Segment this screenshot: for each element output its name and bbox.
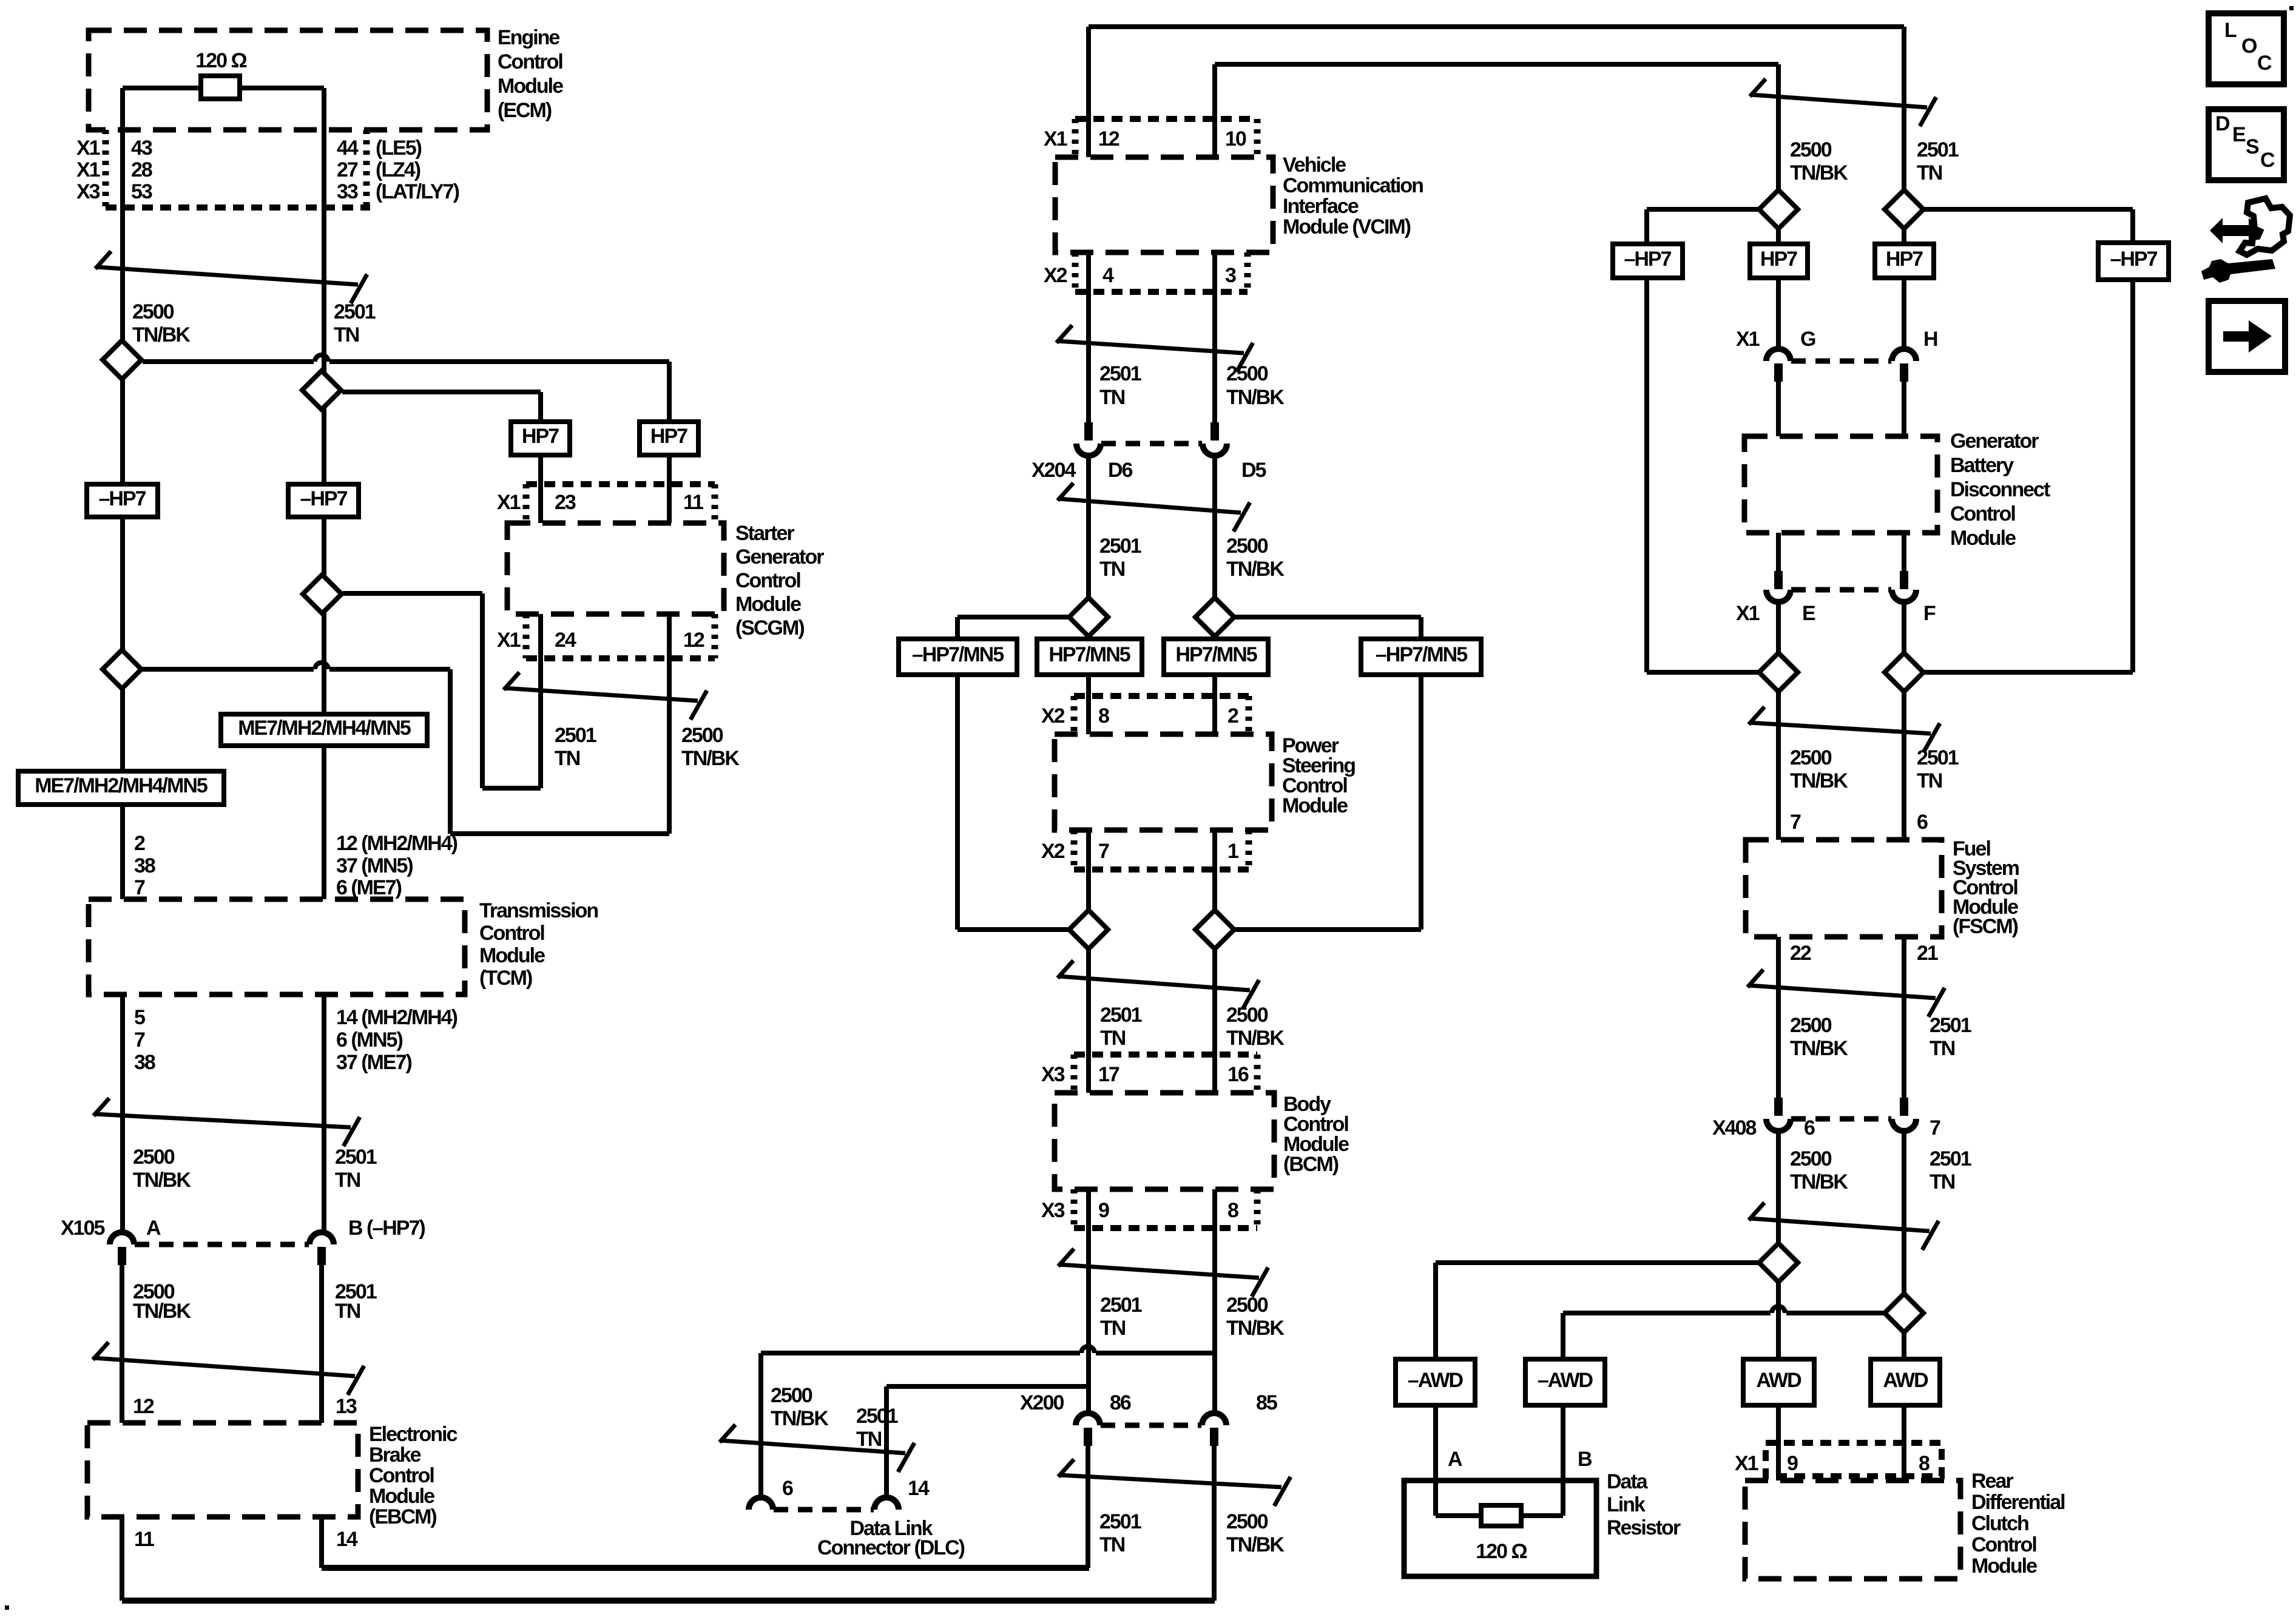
SCGM lower pin box bbox=[526, 614, 715, 658]
svg-text:(LAT/LY7): (LAT/LY7) bbox=[376, 180, 459, 203]
wire S8 to right loop bbox=[1235, 927, 1421, 932]
label X200 pin 85 bbox=[1256, 1391, 1277, 1414]
svg-text:X1: X1 bbox=[76, 137, 100, 160]
FSCM pin 22 bbox=[1790, 942, 1811, 965]
inline connector X408 7 bbox=[1892, 1098, 1916, 1131]
svg-text:TN: TN bbox=[555, 747, 580, 770]
RDCCM X1 designator bbox=[1735, 1452, 1758, 1475]
svg-text:(TCM): (TCM) bbox=[479, 967, 532, 990]
splice S12 on 2501 bbox=[1885, 653, 1923, 692]
option box AWD right bbox=[1871, 1359, 1940, 1405]
svg-text:Clutch: Clutch bbox=[1971, 1512, 2028, 1535]
svg-text:85: 85 bbox=[1256, 1391, 1277, 1414]
svg-text:28: 28 bbox=[131, 158, 152, 181]
wire HP7 to SCGM pin 23 bbox=[538, 455, 543, 788]
svg-text:TN/BK: TN/BK bbox=[133, 1169, 191, 1192]
svg-text:TN: TN bbox=[1100, 1027, 1126, 1050]
wire HP7 to SCGM pin 11 bbox=[667, 455, 672, 834]
option box -HP7/MN5 right bbox=[1361, 639, 1481, 675]
label Starter Generator Control Module (SCGM) bbox=[735, 522, 824, 640]
svg-text:ME7/MH2/MH4/MN5: ME7/MH2/MH4/MN5 bbox=[35, 774, 208, 797]
svg-text:TN/BK: TN/BK bbox=[1790, 769, 1848, 792]
SCGM pin 11 bbox=[683, 491, 703, 514]
svg-text:(FSCM): (FSCM) bbox=[1953, 915, 2018, 938]
label Data Link Resistor bbox=[1607, 1470, 1681, 1539]
ECM pins 44 27 33 bbox=[337, 137, 359, 203]
svg-text:AWD: AWD bbox=[1756, 1369, 1801, 1392]
svg-text:X1: X1 bbox=[497, 629, 521, 652]
module box ECM bbox=[89, 30, 487, 130]
resistor 120 ohm (ECM internal termination) bbox=[201, 76, 240, 99]
svg-text:2501: 2501 bbox=[856, 1405, 898, 1428]
wire S6 stub to box bbox=[1212, 636, 1217, 639]
wire 2501 TN right ECM drop bbox=[322, 88, 326, 1232]
svg-text:27: 27 bbox=[337, 158, 358, 181]
svg-text:–HP7/MN5: –HP7/MN5 bbox=[1376, 643, 1467, 666]
wire AWD to RDCCM 9 bbox=[1776, 1405, 1781, 1480]
bus wire 2501 TN bottom bbox=[322, 1565, 1089, 1571]
SCGM pin 23 bbox=[555, 491, 576, 514]
wire X408 6 to S13 bbox=[1776, 1131, 1781, 1243]
FSCM pin 6 bbox=[1917, 811, 1928, 834]
svg-text:2500: 2500 bbox=[132, 300, 174, 323]
svg-text:37 (ME7): 37 (ME7) bbox=[336, 1051, 411, 1074]
svg-text:TN: TN bbox=[1099, 1533, 1125, 1556]
wire S10 to HP7 box bbox=[1902, 229, 1906, 244]
module box VCIM bbox=[1055, 157, 1273, 252]
svg-text:Module: Module bbox=[498, 75, 563, 98]
wire S5 to -HP7/MN5 branch bbox=[957, 617, 1068, 639]
label X408 pin 7 bbox=[1930, 1116, 1940, 1139]
splice S7 on 2501 bbox=[1069, 910, 1108, 949]
svg-text:X2: X2 bbox=[1041, 840, 1065, 863]
svg-text:HP7: HP7 bbox=[522, 425, 559, 448]
fuse box HP7 (SCGM 11) bbox=[640, 422, 698, 455]
wire S6 to -HP7/MN5 branch bbox=[1235, 617, 1421, 639]
BCM X3 designator lower bbox=[1041, 1199, 1065, 1222]
label wire 2500 TN/BK bbox=[132, 300, 191, 346]
label wire 2501 TN SCGM bbox=[555, 724, 596, 770]
label wire 2500 TN/BK above X105 bbox=[133, 1146, 191, 1192]
BCM pin 16 bbox=[1227, 1063, 1249, 1086]
svg-text:TN: TN bbox=[335, 1300, 360, 1323]
wire X204 D6 down bbox=[1086, 456, 1091, 598]
X408 connector dashed line bbox=[1791, 1116, 1891, 1122]
svg-text:7: 7 bbox=[134, 876, 145, 899]
PSCM X2 lower pin box bbox=[1074, 830, 1249, 869]
wire HP7/MN5 to PSCM 8 bbox=[1086, 675, 1091, 734]
label connector X408 bbox=[1712, 1116, 1756, 1139]
BCM pin 9 bbox=[1098, 1199, 1109, 1222]
twisted pair symbol T3 bbox=[93, 1342, 364, 1395]
DLC connector dashed line bbox=[774, 1507, 874, 1513]
wire VCIM 4 to X204 D6 bbox=[1086, 252, 1091, 422]
module box Generator Battery Disconnect Control Module bbox=[1744, 436, 1937, 533]
option box ME7/MH2/MH4/MN5 upper bbox=[221, 714, 427, 746]
icon box arrow bbox=[2209, 301, 2285, 372]
svg-text:–HP7: –HP7 bbox=[98, 487, 146, 510]
inline connector X1 F bbox=[1892, 571, 1916, 602]
wire GBDCM to X1 E bbox=[1776, 533, 1781, 571]
twisted pair symbol T1 bbox=[95, 251, 367, 303]
label wire 2500 TN/BK above BCM bbox=[1226, 1004, 1285, 1050]
mark top right dot bbox=[2289, 6, 2294, 10]
svg-text:X2: X2 bbox=[1041, 704, 1065, 727]
wire S12 to FSCM 6 bbox=[1902, 692, 1906, 840]
bus wire 2500 TN/BK bottom bbox=[122, 1598, 1215, 1604]
label wire 2500 TN/BK below X408 bbox=[1790, 1147, 1848, 1193]
splice S8 on 2500 bbox=[1195, 910, 1234, 949]
svg-text:8: 8 bbox=[1098, 704, 1109, 727]
module box TCM bbox=[89, 899, 465, 994]
wire DLC 14 riser bbox=[886, 1386, 1089, 1497]
X204 connector dashed line bbox=[1101, 441, 1202, 447]
wire X408 7 to S14 bbox=[1902, 1131, 1906, 1294]
wire PSCM 1 to S8 bbox=[1212, 830, 1217, 910]
svg-text:11: 11 bbox=[683, 491, 703, 514]
module box EBCM bbox=[87, 1423, 358, 1517]
label wire 2501 TN top right bbox=[1917, 138, 1959, 184]
svg-text:G: G bbox=[1800, 328, 1815, 351]
svg-text:2500: 2500 bbox=[1226, 1294, 1268, 1317]
svg-text:12 (MH2/MH4): 12 (MH2/MH4) bbox=[336, 832, 458, 855]
svg-text:TN: TN bbox=[856, 1428, 882, 1451]
svg-text:TN: TN bbox=[1930, 1037, 1955, 1060]
wire DLR B internal bbox=[1521, 1480, 1563, 1516]
wire E to S11 bbox=[1776, 602, 1781, 653]
EBCM pin 12 bbox=[133, 1395, 154, 1418]
svg-text:12: 12 bbox=[1098, 127, 1119, 150]
label pin G bbox=[1800, 328, 1815, 351]
svg-text:14 (MH2/MH4): 14 (MH2/MH4) bbox=[336, 1006, 458, 1029]
option box HP7/MN5 right bbox=[1164, 639, 1268, 675]
svg-text:2501: 2501 bbox=[1099, 535, 1141, 558]
svg-text:4: 4 bbox=[1102, 264, 1114, 287]
label Electronic Brake Control Module (EBCM) bbox=[369, 1423, 457, 1528]
module box Fuel System Control Module bbox=[1746, 840, 1942, 937]
wire VCIM 3 to X204 D5 bbox=[1212, 252, 1217, 422]
SCGM X1 upper bbox=[497, 491, 521, 514]
label 120 ohm bbox=[195, 49, 246, 72]
svg-text:E: E bbox=[2232, 123, 2246, 146]
FSCM pin 7 bbox=[1790, 811, 1801, 834]
SCGM X1 lower bbox=[497, 629, 521, 652]
svg-text:X3: X3 bbox=[1041, 1199, 1065, 1222]
svg-text:Connector (DLC): Connector (DLC) bbox=[817, 1536, 965, 1559]
svg-text:HP7/MN5: HP7/MN5 bbox=[1048, 643, 1130, 666]
VCIM X2 pin box bbox=[1075, 252, 1248, 292]
svg-text:AWD: AWD bbox=[1883, 1369, 1928, 1392]
module box Power Steering Control Module bbox=[1055, 734, 1272, 830]
label wire 2500 TN/BK below X105 bbox=[133, 1280, 191, 1323]
svg-text:X1: X1 bbox=[1736, 328, 1760, 351]
option box HP7 mid right bbox=[1875, 244, 1934, 278]
wire X200 86 to bottom bus bbox=[1086, 1446, 1090, 1568]
svg-text:–HP7: –HP7 bbox=[300, 487, 347, 510]
svg-text:6 (MN5): 6 (MN5) bbox=[336, 1028, 402, 1052]
label Data Link Connector (DLC) bbox=[817, 1517, 965, 1559]
wire X105 B to EBCM 13 bbox=[319, 1265, 324, 1423]
inline connector X408 6 bbox=[1766, 1098, 1791, 1131]
wire BCM 9 to X200 86 bbox=[1086, 1189, 1091, 1413]
FSCM pin 21 bbox=[1917, 942, 1938, 965]
svg-text:2500: 2500 bbox=[1790, 1014, 1832, 1037]
module box SCGM bbox=[507, 523, 724, 614]
svg-text:L: L bbox=[2224, 19, 2237, 42]
label wire 2500 TN/BK above FSCM bbox=[1790, 746, 1848, 792]
svg-text:TN/BK: TN/BK bbox=[681, 747, 740, 770]
label wire 2501 TN below X105 bbox=[335, 1280, 377, 1323]
X1 EF connector dashed line bbox=[1791, 587, 1891, 593]
wire S14 to -AWD B branch bbox=[1563, 1306, 1883, 1359]
svg-text:Data: Data bbox=[1607, 1470, 1649, 1493]
label wire 2501 TN above X408 bbox=[1930, 1014, 1971, 1060]
svg-text:120 Ω: 120 Ω bbox=[195, 49, 246, 72]
svg-text:HP7: HP7 bbox=[1886, 248, 1923, 271]
SCGM pin 24 bbox=[555, 629, 576, 652]
svg-text:C: C bbox=[2257, 52, 2272, 75]
svg-text:TN/BK: TN/BK bbox=[1226, 1027, 1285, 1050]
twisted pair symbol T7 bbox=[1058, 960, 1259, 1009]
svg-text:E: E bbox=[1802, 602, 1815, 625]
svg-text:2500: 2500 bbox=[681, 724, 723, 747]
svg-text:–HP7: –HP7 bbox=[1624, 248, 1671, 271]
twisted pair symbol T2 bbox=[93, 1098, 360, 1146]
label wire 2501 TN above FSCM bbox=[1917, 746, 1959, 792]
icon box DESC bbox=[2209, 109, 2284, 180]
svg-text:7: 7 bbox=[134, 1028, 145, 1052]
SCGM pin 12 bbox=[683, 629, 704, 652]
svg-text:D6: D6 bbox=[1108, 459, 1133, 482]
wire F to S12 bbox=[1902, 602, 1906, 653]
twisted pair symbol T4 SCGM bbox=[504, 672, 707, 720]
svg-text:23: 23 bbox=[555, 491, 576, 514]
svg-text:Module: Module bbox=[479, 944, 545, 967]
TCM pins below left 5 7 38 bbox=[134, 1006, 155, 1074]
svg-text:X2: X2 bbox=[1044, 264, 1067, 287]
VCIM X2 designator bbox=[1044, 264, 1067, 287]
label X200 pin 86 bbox=[1110, 1391, 1131, 1414]
svg-text:2501: 2501 bbox=[335, 1146, 377, 1169]
svg-text:(SCGM): (SCGM) bbox=[735, 616, 804, 640]
resistor 120 ohm Data Link Resistor bbox=[1481, 1505, 1521, 1526]
svg-text:2501: 2501 bbox=[1917, 138, 1959, 161]
wire GBDCM to X1 F bbox=[1902, 533, 1906, 571]
svg-text:TN/BK: TN/BK bbox=[1226, 558, 1285, 581]
inline connector X1 E bbox=[1766, 571, 1791, 602]
label X1 designator EF bbox=[1736, 602, 1760, 625]
svg-text:120 Ω: 120 Ω bbox=[1476, 1540, 1527, 1563]
svg-text:Module: Module bbox=[369, 1485, 434, 1508]
svg-text:(LZ4): (LZ4) bbox=[376, 158, 420, 181]
svg-text:53: 53 bbox=[131, 180, 152, 203]
label wire 2501 TN above BCM bbox=[1100, 1004, 1142, 1050]
option box -HP7/MN5 left bbox=[899, 639, 1017, 675]
icon vehicle with double arrow and wrench bbox=[2201, 198, 2290, 283]
X200 connector dashed line bbox=[1101, 1423, 1201, 1428]
wire -HP7 right loop right col bbox=[1925, 280, 2133, 672]
svg-text:1: 1 bbox=[1227, 840, 1238, 863]
wire S9 to -HP7 branch left bbox=[1647, 209, 1758, 244]
twisted pair symbol T10 DLC bbox=[720, 1425, 914, 1472]
label wire 2500 TN/BK above X408 bbox=[1790, 1014, 1848, 1060]
label wire 2501 TN above X105 bbox=[335, 1146, 377, 1192]
wire HP7 to X1 G bbox=[1776, 278, 1781, 349]
label 120 ohm DLR bbox=[1476, 1540, 1527, 1563]
splice S11 on 2500 bbox=[1759, 653, 1798, 692]
svg-text:TN/BK: TN/BK bbox=[1226, 1533, 1285, 1556]
svg-text:–AWD: –AWD bbox=[1538, 1369, 1593, 1392]
twisted pair symbol T13 bbox=[1747, 970, 1945, 1017]
wire S7 to left loop bbox=[957, 927, 1068, 932]
svg-text:2501: 2501 bbox=[1099, 1510, 1141, 1533]
PSCM X2 designator upper bbox=[1041, 704, 1065, 727]
svg-text:14: 14 bbox=[336, 1528, 358, 1551]
svg-text:86: 86 bbox=[1110, 1391, 1131, 1414]
svg-text:2501: 2501 bbox=[334, 300, 376, 323]
option box HP7/MN5 left bbox=[1037, 639, 1142, 675]
svg-text:6 (ME7): 6 (ME7) bbox=[336, 876, 402, 899]
option box -HP7 far right bbox=[2098, 243, 2169, 280]
svg-text:Control: Control bbox=[369, 1464, 434, 1487]
wire AWD to RDCCM 8 bbox=[1902, 1405, 1906, 1480]
wire S8 to BCM 16 bbox=[1212, 949, 1217, 1093]
svg-text:10: 10 bbox=[1225, 127, 1246, 150]
svg-text:Vehicle: Vehicle bbox=[1283, 154, 1346, 177]
svg-text:9: 9 bbox=[1098, 1199, 1109, 1222]
svg-text:TN: TN bbox=[334, 323, 359, 346]
splice S13 on 2500 bbox=[1759, 1243, 1798, 1282]
svg-text:X1: X1 bbox=[1044, 127, 1067, 150]
label Rear Differential Clutch Control Module bbox=[1971, 1470, 2065, 1578]
svg-text:ME7/MH2/MH4/MN5: ME7/MH2/MH4/MN5 bbox=[238, 717, 411, 740]
svg-text:Communication: Communication bbox=[1283, 174, 1423, 197]
label Vehicle Communication Interface Module (VCIM) bbox=[1283, 154, 1423, 238]
label Transmission Control Module (TCM) bbox=[479, 899, 598, 990]
splice S4 on 2500 bbox=[103, 650, 141, 689]
PSCM pin 2 bbox=[1227, 704, 1238, 727]
label wire 2501 TN below X408 bbox=[1930, 1147, 1971, 1193]
wire -HP7 left loop right col bbox=[1647, 278, 1758, 672]
BCM X3 upper pin box bbox=[1074, 1055, 1257, 1093]
svg-text:X408: X408 bbox=[1712, 1116, 1756, 1139]
svg-text:Control: Control bbox=[1971, 1533, 2036, 1556]
svg-text:TN: TN bbox=[1930, 1170, 1955, 1193]
label wire 2500 TN/BK below X204 bbox=[1226, 535, 1285, 581]
svg-text:2500: 2500 bbox=[1790, 746, 1832, 769]
svg-text:Module: Module bbox=[735, 593, 801, 616]
label X204 pin D6 bbox=[1108, 459, 1133, 482]
svg-text:TN/BK: TN/BK bbox=[1790, 1170, 1848, 1193]
PSCM pin 8 bbox=[1098, 704, 1109, 727]
SCGM upper pin box bbox=[526, 484, 715, 523]
splice S1 on 2500 bbox=[103, 340, 141, 379]
wire G to GBDCM bbox=[1776, 382, 1781, 436]
svg-text:Battery: Battery bbox=[1950, 454, 2014, 477]
module box Rear Differential Clutch Control Module bbox=[1745, 1480, 1960, 1579]
svg-text:Control: Control bbox=[1950, 502, 2015, 525]
svg-text:2: 2 bbox=[134, 832, 145, 855]
label DLR pin A bbox=[1448, 1448, 1462, 1471]
EBCM pin 14 bbox=[336, 1528, 358, 1551]
wire 2500 TN/BK left ECM drop bbox=[120, 88, 125, 1232]
svg-text:6: 6 bbox=[1917, 811, 1928, 834]
wire -HP7/MN5 right loop bbox=[1419, 675, 1423, 930]
svg-text:2501: 2501 bbox=[1930, 1014, 1971, 1037]
wire 2500 TN/BK right drop bbox=[1776, 64, 1781, 189]
svg-text:13: 13 bbox=[336, 1395, 357, 1418]
svg-text:Starter: Starter bbox=[735, 522, 794, 545]
VCIM X1 pin box bbox=[1075, 119, 1257, 157]
wire S14 to AWD box bbox=[1902, 1332, 1906, 1359]
label X204 pin D5 bbox=[1241, 459, 1266, 482]
svg-text:8: 8 bbox=[1919, 1452, 1930, 1475]
label wire 2500 TN/BK above X200 bbox=[1226, 1294, 1285, 1340]
svg-text:2501: 2501 bbox=[1099, 362, 1141, 385]
svg-text:TN/BK: TN/BK bbox=[771, 1407, 829, 1430]
wire S7 to BCM 17 bbox=[1086, 949, 1091, 1093]
ECM pin box bbox=[106, 130, 370, 208]
svg-text:17: 17 bbox=[1098, 1063, 1119, 1086]
svg-text:2501: 2501 bbox=[1100, 1294, 1142, 1317]
svg-text:Engine: Engine bbox=[498, 26, 559, 49]
svg-text:2501: 2501 bbox=[1100, 1004, 1142, 1027]
svg-text:TN: TN bbox=[1099, 558, 1125, 581]
EBCM pin 13 bbox=[336, 1395, 357, 1418]
svg-text:(ECM): (ECM) bbox=[498, 99, 552, 122]
option box ME7/MH2/MH4/MN5 lower bbox=[18, 771, 224, 805]
svg-text:5: 5 bbox=[134, 1006, 145, 1029]
wire S13 to AWD box bbox=[1776, 1282, 1781, 1359]
svg-text:X3: X3 bbox=[1041, 1063, 1065, 1086]
svg-text:–HP7/MN5: –HP7/MN5 bbox=[912, 643, 1004, 666]
svg-text:S: S bbox=[2246, 135, 2259, 158]
ECM pins 43 28 53 bbox=[131, 137, 152, 203]
svg-text:Disconnect: Disconnect bbox=[1950, 478, 2050, 501]
bus wire top 2501 TN bbox=[1089, 27, 1904, 157]
wire EBCM 14 drop bbox=[319, 1517, 324, 1568]
svg-text:Link: Link bbox=[1607, 1493, 1646, 1516]
svg-text:Electronic: Electronic bbox=[369, 1423, 457, 1446]
svg-text:38: 38 bbox=[134, 1051, 155, 1074]
svg-text:Interface: Interface bbox=[1283, 195, 1359, 218]
inline connector X204 D5 bbox=[1203, 422, 1227, 456]
svg-text:TN/BK: TN/BK bbox=[132, 323, 191, 346]
svg-text:43: 43 bbox=[131, 137, 152, 160]
svg-text:7: 7 bbox=[1930, 1116, 1940, 1139]
inline connector X105 A bbox=[110, 1232, 134, 1265]
label wire 2500 TN/BK top right bbox=[1790, 138, 1848, 184]
TCM pins above right bbox=[336, 832, 458, 899]
svg-text:H: H bbox=[1923, 328, 1937, 351]
svg-text:2501: 2501 bbox=[1917, 746, 1959, 769]
svg-text:2500: 2500 bbox=[1226, 1510, 1268, 1533]
BCM pin 17 bbox=[1098, 1063, 1119, 1086]
label X105 pin A bbox=[146, 1217, 161, 1240]
svg-text:9: 9 bbox=[1787, 1452, 1798, 1475]
splice S2 on 2501 bbox=[302, 371, 341, 410]
svg-text:Differential: Differential bbox=[1971, 1491, 2065, 1514]
svg-text:X1: X1 bbox=[1735, 1452, 1758, 1475]
ECM connector designators X1 X1 X3 bbox=[76, 137, 100, 203]
svg-text:2500: 2500 bbox=[1226, 362, 1268, 385]
svg-text:TN: TN bbox=[335, 1169, 360, 1192]
label X408 pin 6 bbox=[1804, 1116, 1815, 1139]
PSCM X2 designator lower bbox=[1041, 840, 1065, 863]
svg-text:TN: TN bbox=[1099, 386, 1125, 409]
twisted pair symbol T9 bbox=[1058, 1459, 1291, 1506]
svg-text:X1: X1 bbox=[497, 491, 521, 514]
